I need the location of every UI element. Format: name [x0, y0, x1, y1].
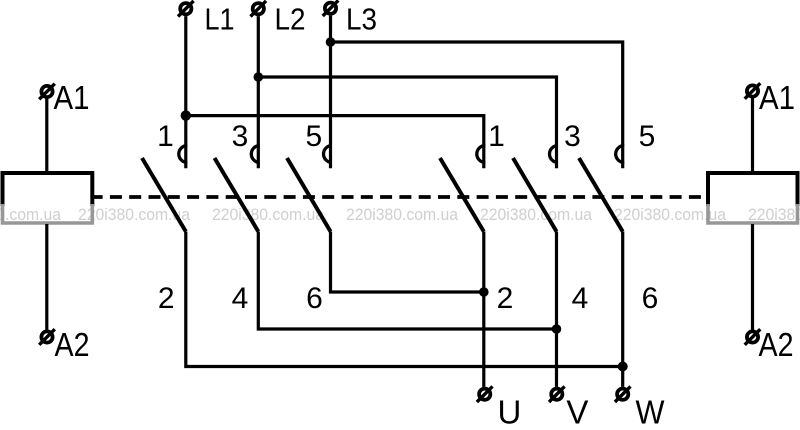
wire coil K1 to A2 left — [45, 224, 48, 330]
svg-text:2: 2 — [158, 282, 175, 315]
terminal A2 right — [745, 329, 761, 345]
terminal W — [615, 386, 631, 402]
terminal V — [549, 386, 565, 402]
svg-text:6: 6 — [306, 282, 323, 315]
wire coil K2 to A2 right — [751, 224, 754, 330]
svg-text:V: V — [566, 394, 588, 430]
svg-text:4: 4 — [572, 282, 589, 315]
svg-text:A2: A2 — [759, 326, 794, 363]
svg-text:2: 2 — [497, 282, 514, 315]
terminal U — [477, 386, 493, 402]
terminal A1 left — [39, 84, 55, 100]
wire node L3 to contact K2 pole 5 — [331, 42, 623, 168]
svg-text:3: 3 — [564, 120, 581, 153]
coil K1 bottom edge (grayed by watermark) — [3, 204, 93, 223]
wire contact K2 pole 4 to terminal V — [555, 232, 558, 387]
terminal A1 right — [745, 83, 761, 99]
watermark 220i380.com.ua row — [0, 206, 800, 224]
svg-text:1: 1 — [488, 120, 505, 153]
svg-text:220i380.com.ua: 220i380.com.ua — [480, 206, 593, 224]
wire L1 down to contact K1 pole 1 — [184, 16, 187, 168]
svg-text:A2: A2 — [55, 326, 90, 363]
terminal L2 — [251, 1, 267, 17]
svg-text:U: U — [497, 394, 521, 430]
moving blade K2 pole 3-4 — [513, 158, 557, 232]
terminal A2 left — [39, 329, 55, 345]
wire node L2 to contact K2 pole 3 — [258, 77, 556, 168]
wire contact K1 pole 2 to node W — [186, 232, 623, 367]
fixed contact arc K2 pole 5 — [616, 146, 625, 163]
junction node V — [552, 324, 562, 334]
svg-text:5: 5 — [305, 120, 322, 153]
svg-text:3: 3 — [232, 120, 249, 153]
svg-text:6: 6 — [642, 282, 659, 315]
junction node U — [479, 287, 489, 297]
wire L3 down to contact K1 pole 5 — [329, 16, 332, 169]
svg-text:220i380.com.ua: 220i380.com.ua — [212, 206, 325, 224]
svg-text:5: 5 — [639, 120, 656, 153]
svg-text:1: 1 — [157, 120, 174, 153]
junction node on L1 — [181, 110, 191, 120]
fixed contact arc K2 pole 3 — [550, 146, 559, 163]
fixed contact arc K2 pole 1 — [477, 146, 486, 163]
wire contact K1 pole 6 to node U — [331, 232, 484, 293]
svg-text:4: 4 — [232, 282, 249, 315]
moving blade K2 pole 1-2 — [440, 158, 484, 232]
coil K1 (left contactor) — [3, 173, 93, 206]
fixed contact arc K1 pole 1 — [179, 146, 187, 163]
wire contact K1 pole 4 to node V — [258, 232, 556, 330]
junction node on L2 — [253, 72, 263, 82]
junction node on L3 — [326, 37, 336, 47]
coil K2 (right contactor) — [708, 173, 798, 206]
wire contact K2 pole 6 to terminal W — [621, 232, 624, 387]
svg-text:W: W — [636, 394, 666, 430]
moving blade K1 pole 5-6 — [287, 158, 331, 232]
wire A1 left to coil K1 — [45, 98, 48, 175]
coil K2 bottom edge (grayed by watermark) — [708, 204, 798, 223]
fixed contact arc K1 pole 3 — [251, 146, 260, 163]
svg-text:A1: A1 — [759, 79, 795, 116]
moving blade K1 pole 1-2 — [142, 158, 186, 232]
moving blade K2 pole 5-6 — [579, 158, 623, 232]
svg-text:L2: L2 — [275, 2, 306, 37]
moving blade K1 pole 3-4 — [215, 158, 259, 232]
svg-text:L3: L3 — [346, 2, 377, 37]
terminal L1 — [178, 1, 194, 17]
terminal L3 — [323, 0, 339, 16]
svg-text:L1: L1 — [205, 2, 235, 37]
svg-text:220i380.com.ua: 220i380.com.ua — [346, 206, 459, 224]
mechanical link (dashed) — [93, 195, 705, 199]
fixed contact arc K1 pole 5 — [324, 146, 333, 163]
wire L2 down to contact K1 pole 3 — [257, 16, 260, 168]
wire node L1 to contact K2 pole 1 — [186, 116, 484, 169]
wire contact K2 pole 2 to terminal U — [482, 232, 485, 387]
svg-text:A1: A1 — [54, 79, 90, 116]
junction node W — [618, 362, 628, 372]
wire A1 right to coil K2 — [751, 98, 754, 175]
